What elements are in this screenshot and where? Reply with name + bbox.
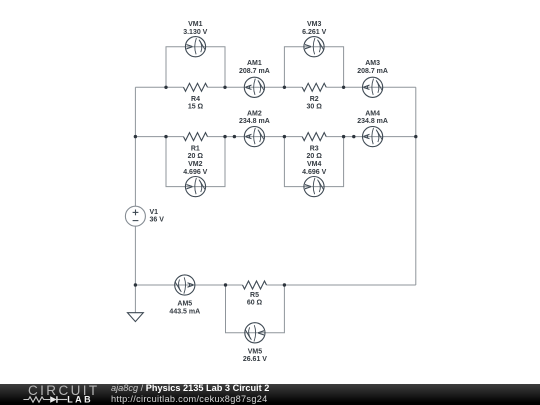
node junction dot	[223, 135, 226, 138]
svg-text:15 Ω: 15 Ω	[188, 104, 204, 111]
svg-text:A: A	[186, 282, 195, 288]
label VM5	[243, 348, 267, 363]
wire row1 left of R4	[135, 86, 183, 88]
label AM2	[239, 110, 270, 125]
wire ground stem	[134, 285, 136, 313]
wire bottom row left of R5 through AM5	[135, 284, 242, 286]
wire left rail upper	[134, 87, 136, 206]
voltmeter VM4	[304, 177, 324, 197]
wire row1 R4 to R2 through AM1	[208, 86, 303, 88]
resistor R4	[184, 83, 208, 91]
svg-text:30 Ω: 30 Ω	[307, 104, 323, 111]
node junction dot	[164, 135, 167, 138]
node junction dot	[223, 86, 226, 89]
svg-text:V: V	[186, 43, 195, 49]
svg-text:A: A	[245, 84, 254, 90]
wire VM1 loop	[166, 47, 225, 88]
ground	[128, 313, 144, 322]
svg-text:A: A	[245, 134, 254, 140]
svg-text:R4: R4	[191, 96, 200, 103]
node junction dot	[283, 86, 286, 89]
svg-text:36 V: 36 V	[150, 217, 165, 224]
svg-text:443.5 mA: 443.5 mA	[169, 309, 200, 316]
node junction dot	[342, 86, 345, 89]
logo diode symbol	[50, 396, 57, 403]
ammeter AM2	[244, 127, 264, 147]
node junction dot	[134, 135, 137, 138]
svg-text:A: A	[363, 134, 372, 140]
svg-text:60 Ω: 60 Ω	[247, 300, 263, 307]
svg-text:A: A	[363, 84, 372, 90]
svg-text:R5: R5	[250, 292, 259, 299]
wire row2 R1 to R3 through AM2	[208, 136, 303, 138]
node junction dot	[233, 135, 236, 138]
svg-text:AM3: AM3	[365, 60, 380, 67]
logo wire to LAB	[58, 399, 68, 401]
label V1	[150, 209, 165, 224]
svg-text:VM3: VM3	[307, 21, 322, 28]
wire row2 left of R1	[135, 136, 183, 138]
svg-text:VM1: VM1	[188, 21, 203, 28]
svg-text:V1: V1	[150, 209, 159, 216]
svg-text:6.261 V: 6.261 V	[302, 29, 326, 36]
svg-text:3.130 V: 3.130 V	[183, 29, 207, 36]
label AM5	[169, 301, 200, 316]
svg-text:R3: R3	[310, 145, 319, 152]
svg-text:V: V	[304, 183, 313, 189]
svg-text:234.8 mA: 234.8 mA	[357, 118, 388, 125]
svg-text:R2: R2	[310, 96, 319, 103]
voltmeter VM3	[304, 37, 324, 57]
node junction dot	[352, 135, 355, 138]
footer bar	[0, 384, 540, 405]
svg-text:20 Ω: 20 Ω	[188, 153, 204, 160]
svg-text:VM5: VM5	[248, 348, 263, 355]
svg-text:V: V	[304, 43, 313, 49]
svg-text:208.7 mA: 208.7 mA	[357, 68, 388, 75]
svg-text:20 Ω: 20 Ω	[307, 153, 323, 160]
svg-text:AM5: AM5	[177, 301, 192, 308]
wire VM3 loop	[284, 47, 343, 88]
node junction dot	[283, 135, 286, 138]
wire VM5 loop	[226, 285, 285, 333]
svg-text:V: V	[186, 183, 195, 189]
wire left rail lower	[134, 226, 136, 285]
label AM1	[239, 60, 270, 75]
svg-text:VM2: VM2	[188, 161, 203, 168]
node junction dot	[283, 283, 286, 286]
wire right rail	[415, 87, 417, 285]
node junction dot	[414, 135, 417, 138]
label R1	[183, 145, 207, 176]
logo resistor zigzag	[23, 397, 50, 402]
svg-text:LAB: LAB	[67, 395, 93, 405]
resistor R3	[302, 133, 326, 141]
wire bottom row right of R5	[267, 284, 416, 286]
wire VM2 loop	[166, 137, 225, 187]
svg-text:208.7 mA: 208.7 mA	[239, 68, 270, 75]
CircuitLab logo	[0, 384, 110, 405]
svg-text:V: V	[256, 330, 265, 336]
svg-text:4.696 V: 4.696 V	[302, 169, 326, 176]
node junction dot	[224, 283, 227, 286]
svg-text:234.8 mA: 234.8 mA	[239, 118, 270, 125]
svg-text:AM4: AM4	[365, 110, 380, 117]
footer title text	[111, 383, 269, 405]
label R4	[188, 96, 204, 111]
label R2	[307, 96, 323, 111]
svg-text:AM2: AM2	[247, 110, 262, 117]
svg-text:4.696 V: 4.696 V	[183, 169, 207, 176]
label AM4	[357, 110, 388, 125]
ammeter AM4	[363, 127, 383, 147]
ammeter AM1	[244, 77, 264, 97]
node junction dot	[164, 86, 167, 89]
voltage source V1	[125, 206, 145, 226]
voltmeter VM5	[245, 323, 265, 343]
label R5	[247, 292, 263, 307]
svg-text:R1: R1	[191, 145, 200, 152]
label VM1	[183, 21, 207, 36]
resistor R1	[184, 133, 208, 141]
wire VM4 loop	[284, 137, 343, 187]
ammeter AM5	[175, 275, 195, 295]
node junction dot	[342, 135, 345, 138]
svg-text:26.61 V: 26.61 V	[243, 356, 267, 363]
resistor R5	[243, 281, 267, 289]
label R3	[302, 145, 326, 176]
ammeter AM3	[363, 77, 383, 97]
wire row2 R3 to right rail through AM4	[326, 136, 416, 138]
resistor R2	[302, 83, 326, 91]
voltmeter VM1	[185, 37, 205, 57]
node junction dot	[134, 283, 137, 286]
svg-text:AM1: AM1	[247, 60, 262, 67]
voltmeter VM2	[185, 177, 205, 197]
wire row1 R2 to right rail through AM3	[326, 86, 416, 88]
label AM3	[357, 60, 388, 75]
svg-text:VM4: VM4	[307, 161, 322, 168]
label VM3	[302, 21, 326, 36]
